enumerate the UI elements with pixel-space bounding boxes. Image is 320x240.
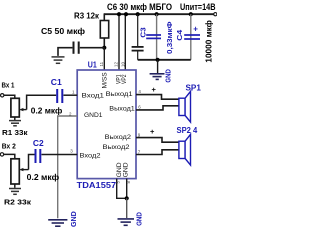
wire bottom GND pin b bbox=[126, 179, 128, 199]
node VP2 on rail bbox=[124, 12, 128, 16]
svg-text:Вх 2: Вх 2 bbox=[2, 142, 16, 151]
svg-text:0,33мкФ: 0,33мкФ bbox=[165, 22, 174, 55]
potentiometer R1 wiper arrow bbox=[21, 109, 27, 111]
svg-text:GND: GND bbox=[71, 211, 78, 227]
svg-text:+: + bbox=[150, 127, 155, 136]
svg-text:+: + bbox=[193, 25, 198, 34]
wire R3 to node bbox=[103, 38, 105, 48]
svg-text:+: + bbox=[152, 85, 157, 94]
wire C6 bottom lead bbox=[137, 51, 139, 60]
wire C5 right lead bbox=[80, 47, 105, 49]
wire bottom GND pins bbox=[117, 179, 127, 199]
svg-text:U1: U1 bbox=[88, 60, 97, 70]
wire rail to R3 bbox=[103, 13, 105, 20]
wire R1 wiper to C1 bbox=[27, 95, 57, 109]
svg-text:C5 50 мкф: C5 50 мкф bbox=[41, 27, 85, 36]
svg-text:R1 33к: R1 33к bbox=[2, 128, 28, 137]
wire top supply rail bbox=[104, 13, 214, 15]
svg-text:Вх 1: Вх 1 bbox=[2, 80, 15, 89]
svg-text:TDA1557: TDA1557 bbox=[77, 180, 117, 190]
wire C5 left lead bbox=[58, 48, 72, 56]
svg-text:GND1: GND1 bbox=[84, 112, 103, 119]
svg-text:M/SS: M/SS bbox=[102, 72, 109, 88]
svg-text:C3: C3 bbox=[138, 27, 147, 38]
svg-text:R2 33к: R2 33к bbox=[4, 197, 31, 206]
potentiometer R1 body bbox=[11, 98, 19, 117]
wire pin6 to SP1 minus bbox=[136, 106, 179, 110]
input terminal Вх2 bbox=[0, 153, 3, 156]
node VP1 on rail bbox=[117, 12, 121, 16]
ground R1 bbox=[9, 121, 21, 126]
svg-text:C4: C4 bbox=[175, 29, 184, 41]
svg-text:SP2 4: SP2 4 bbox=[177, 126, 198, 135]
svg-text:C2: C2 bbox=[33, 139, 44, 148]
node C6 on rail bbox=[136, 12, 140, 16]
resistor R3 bbox=[100, 21, 108, 39]
speaker SP1 bbox=[179, 91, 191, 122]
wire VP1 drop bbox=[118, 14, 120, 70]
wire pin9 to SP2 plus bbox=[136, 138, 179, 143]
wire VP2 drop bbox=[124, 14, 126, 70]
svg-text:Вход1: Вход1 bbox=[82, 93, 105, 100]
capacitor C1 bbox=[57, 89, 62, 103]
svg-text:0.2 мкф: 0.2 мкф bbox=[31, 106, 63, 115]
capacitor C3 bbox=[146, 35, 161, 38]
wire R2 bottom to ground bbox=[14, 184, 16, 188]
wire capacitor-bank bottom rail bbox=[138, 59, 191, 61]
wire Вх2 to R2 top bbox=[4, 154, 15, 158]
capacitor C6 bbox=[132, 47, 144, 51]
wire junction to power ground bbox=[126, 198, 128, 218]
ground C5 bbox=[52, 57, 65, 63]
wire Вх1 to R1 top bbox=[4, 95, 15, 98]
ground R2 bbox=[9, 189, 21, 195]
capacitor C2 bbox=[36, 149, 41, 163]
svg-text:Uпит=14В: Uпит=14В bbox=[180, 2, 216, 12]
capacitor C5 bbox=[74, 42, 79, 54]
speaker SP2 bbox=[179, 134, 191, 165]
wire node to M/SS pin bbox=[103, 48, 105, 70]
input terminal Вх1 bbox=[1, 94, 4, 97]
svg-text:C1: C1 bbox=[51, 78, 63, 87]
wire C4 through lead bbox=[190, 14, 192, 60]
svg-text:Выход2: Выход2 bbox=[103, 144, 131, 151]
ground power bbox=[118, 219, 135, 225]
svg-text:VP2: VP2 bbox=[121, 74, 128, 84]
potentiometer R2 body bbox=[11, 159, 19, 184]
svg-text:Выход1: Выход1 bbox=[106, 91, 134, 98]
wire pin2 GND1 lead bbox=[58, 116, 77, 218]
IC U1 TDA1557 body bbox=[77, 70, 136, 179]
svg-text:10000 мкф: 10000 мкф bbox=[204, 20, 214, 63]
svg-text:11: 11 bbox=[99, 61, 104, 66]
capacitor C4 bbox=[184, 35, 200, 39]
svg-text:GND: GND bbox=[137, 212, 144, 226]
svg-text:C6 30 мкф МБГО: C6 30 мкф МБГО bbox=[107, 2, 172, 12]
wire C2 to pin3 bbox=[42, 154, 78, 156]
wire bottom rail to ground bbox=[157, 60, 159, 73]
svg-text:10: 10 bbox=[121, 61, 126, 67]
node bottom rail ground tap bbox=[156, 58, 160, 62]
svg-text:Выход1: Выход1 bbox=[109, 105, 135, 112]
svg-text:0.2 мкф: 0.2 мкф bbox=[27, 173, 60, 182]
wire R1 bottom to ground bbox=[14, 117, 16, 120]
svg-text:R3 12к: R3 12к bbox=[74, 11, 100, 21]
potentiometer R2 wiper arrow bbox=[21, 169, 29, 171]
node C3 on rail bbox=[155, 12, 159, 16]
svg-text:12: 12 bbox=[114, 61, 119, 67]
node R3/C5/M-SS junction bbox=[102, 46, 106, 50]
svg-text:SP1: SP1 bbox=[186, 84, 202, 93]
svg-text:GND: GND bbox=[166, 69, 173, 82]
terminal Uпит bbox=[214, 13, 217, 16]
ground cap bank bbox=[150, 74, 165, 80]
svg-text:Вход2: Вход2 bbox=[80, 152, 102, 159]
wire C6 top lead bbox=[137, 14, 139, 46]
wire C1 to pin1 bbox=[64, 94, 78, 96]
svg-text:Выход2: Выход2 bbox=[105, 134, 132, 141]
ground GND1 signal bbox=[48, 220, 67, 226]
wire pin7 to SP2 minus bbox=[136, 150, 179, 155]
wire C3 through lead bbox=[156, 14, 158, 60]
wire pin4 to SP1 plus bbox=[136, 95, 179, 100]
svg-text:GND: GND bbox=[122, 162, 129, 177]
node bottom GND junction bbox=[125, 196, 129, 200]
wire R2 wiper to C2 bbox=[29, 155, 35, 170]
node C4 on rail bbox=[189, 12, 193, 16]
